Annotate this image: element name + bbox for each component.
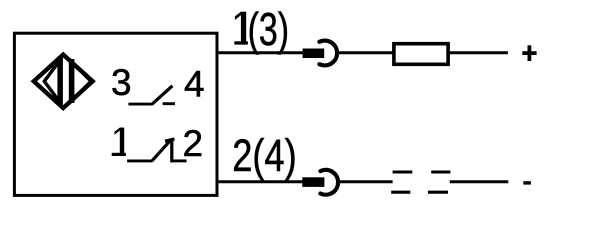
- NO contact S1 lever: [152, 86, 173, 105]
- svg-text:3: 3: [111, 62, 132, 103]
- sensor symbol left bar: [57, 57, 63, 104]
- NO contact S1 right stub: [163, 102, 175, 105]
- optional load dashed top edge dash 1: [393, 170, 413, 173]
- NC contact S2 top tick: [165, 139, 175, 141]
- svg-text:4: 4: [184, 63, 205, 104]
- NC contact S2 lever: [152, 141, 170, 161]
- NC contact S2 right stub: [172, 159, 187, 162]
- bottom connector socket arc: [320, 170, 338, 195]
- load resistor: [394, 44, 448, 65]
- wire: bottom connector to dashed load: [338, 180, 393, 183]
- wire: box to bottom connector: [219, 180, 303, 183]
- wire: resistor to plus terminal: [448, 51, 508, 54]
- NC contact S2 left lead: [127, 159, 152, 162]
- wire label 1(3) hand drawn one: [234, 12, 248, 45]
- sensor body box: [14, 33, 217, 195]
- optional load dashed bottom edge dash 1: [391, 191, 410, 194]
- svg-text:2: 2: [183, 123, 204, 164]
- sensor symbol inner right chevron: [72, 62, 92, 101]
- wire: box to top connector: [219, 51, 303, 54]
- svg-text:2(4): 2(4): [232, 130, 297, 181]
- top connector plug pin: [303, 49, 325, 59]
- wire: top connector to resistor: [337, 51, 394, 54]
- top connector socket arc: [319, 41, 337, 66]
- pin label 1 (hand drawn serif one): [112, 128, 126, 156]
- sensor symbol inner left triangle: [44, 60, 60, 102]
- NO contact S1 left lead: [128, 103, 152, 106]
- sensor symbol right bar: [69, 59, 75, 103]
- plus terminal sign: [522, 45, 536, 61]
- optional load dashed top edge dash 2: [431, 170, 450, 173]
- NC contact S2 vertical bar: [170, 139, 173, 162]
- wire: dashed load to minus terminal: [450, 180, 509, 183]
- svg-text:(3): (3): [248, 3, 290, 55]
- bottom connector plug pin: [302, 177, 324, 187]
- minus terminal sign: [523, 181, 531, 184]
- proximity sensor diamond symbol: [34, 55, 93, 108]
- optional load dashed bottom edge dash 2: [428, 191, 448, 194]
